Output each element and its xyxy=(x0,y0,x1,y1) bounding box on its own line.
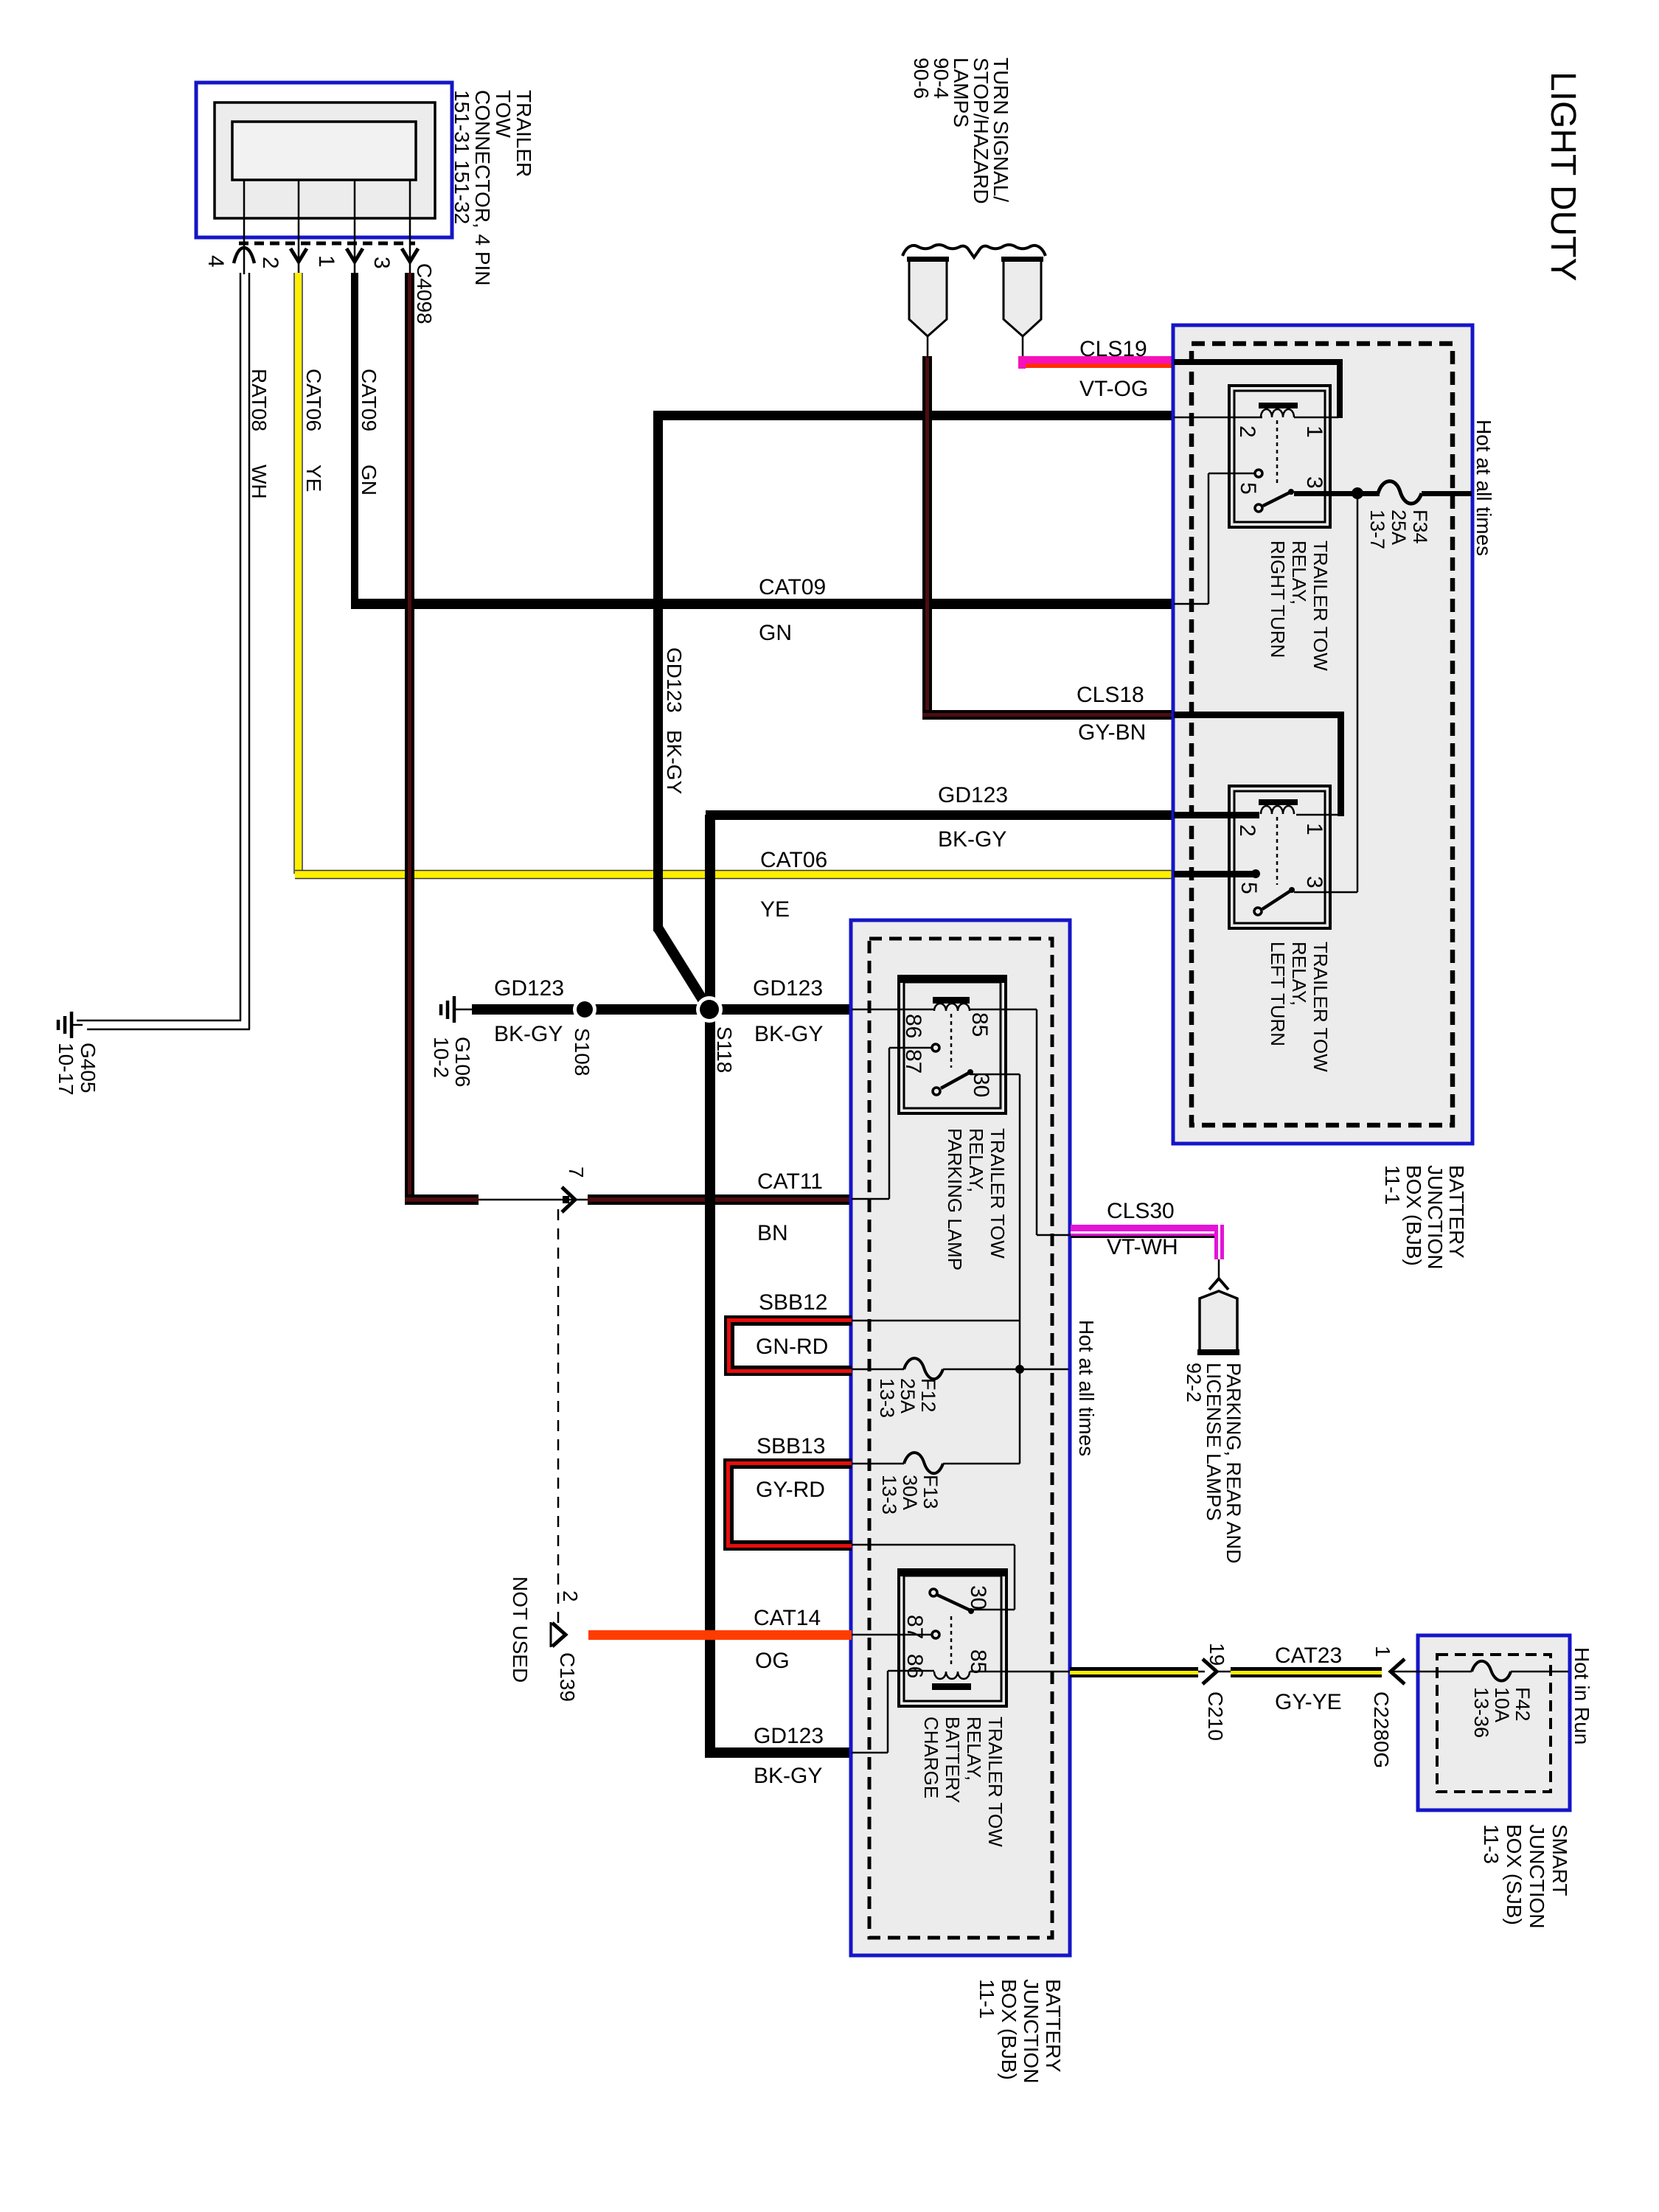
connector pin stub 4 xyxy=(243,180,246,274)
svg-text:TRAILER TOW: TRAILER TOW xyxy=(1310,540,1332,671)
svg-text:TRAILER TOW: TRAILER TOW xyxy=(987,1128,1009,1259)
svg-text:90-6: 90-6 xyxy=(910,58,933,99)
label RAT08 WH xyxy=(248,369,271,499)
svg-text:11-1: 11-1 xyxy=(1381,1165,1404,1205)
svg-text:F12: F12 xyxy=(917,1378,939,1413)
label turn signal lamps xyxy=(910,58,1012,204)
wire CAT06 YE yellow horizontal xyxy=(295,871,1174,878)
svg-text:S118: S118 xyxy=(713,1026,736,1073)
svg-text:19: 19 xyxy=(1206,1643,1228,1666)
svg-text:C139: C139 xyxy=(556,1652,579,1702)
label 2 C139 xyxy=(556,1590,582,1702)
svg-text:85: 85 xyxy=(966,1649,990,1674)
svg-text:SMART: SMART xyxy=(1548,1824,1571,1896)
label trailer tow relay parking lamp xyxy=(944,1128,1009,1270)
svg-text:CLS30: CLS30 xyxy=(1107,1199,1175,1223)
wire CAT06 YE yellow vertical xyxy=(295,273,302,877)
wire CAT06 inside to pin 5 xyxy=(1174,871,1253,877)
svg-text:LEFT TURN: LEFT TURN xyxy=(1267,942,1289,1046)
svg-text:151-31 151-32: 151-31 151-32 xyxy=(451,90,473,224)
svg-text:RELAY,: RELAY, xyxy=(965,1128,987,1192)
label parking rear and license lamps 92-2 xyxy=(1183,1363,1245,1564)
lamp turn signal left xyxy=(907,257,949,358)
wire CLS30 VT-WH magenta xyxy=(1071,1225,1224,1259)
connector parking rear license lamps xyxy=(1197,1259,1239,1355)
wire GD123 BK-GY left turn relay ground horizontal xyxy=(706,810,1174,820)
label CAT09 GN rotated xyxy=(358,369,380,495)
svg-text:GN-RD: GN-RD xyxy=(756,1335,828,1359)
label trailer tow relay left turn xyxy=(1267,942,1332,1072)
pin labels left turn relay xyxy=(1235,823,1326,894)
svg-text:87: 87 xyxy=(902,1615,927,1639)
relay K2 trailer tow relay left turn xyxy=(1229,786,1330,928)
svg-text:BOX (BJB): BOX (BJB) xyxy=(1402,1165,1425,1266)
svg-text:F42: F42 xyxy=(1512,1687,1534,1722)
svg-text:3: 3 xyxy=(369,257,394,269)
wire CAT09 GN black vertical xyxy=(351,273,358,609)
label F13 30A 13-3 xyxy=(878,1475,942,1514)
svg-text:86: 86 xyxy=(901,1014,925,1038)
wire CAT14 thin inside to pin 87 xyxy=(852,1634,932,1636)
wire CAT23 GY-YE segment 2 xyxy=(1217,1667,1382,1677)
svg-text:7: 7 xyxy=(565,1166,588,1178)
svg-text:13-36: 13-36 xyxy=(1470,1687,1492,1738)
svg-text:2: 2 xyxy=(1235,824,1259,837)
svg-text:3: 3 xyxy=(1302,476,1326,489)
svg-text:LICENSE LAMPS: LICENSE LAMPS xyxy=(1203,1363,1225,1521)
svg-text:4: 4 xyxy=(204,255,228,268)
label CAT11 BN xyxy=(757,1169,823,1245)
wire CLS19 VT-OG magenta xyxy=(1018,356,1174,369)
dashed line to C139 xyxy=(557,1209,560,1626)
label CLS18 GY-BN xyxy=(1077,683,1146,745)
svg-text:GD123: GD123 xyxy=(753,976,823,1001)
svg-text:5: 5 xyxy=(1236,482,1260,495)
ground G106 xyxy=(441,996,475,1023)
wire CAT09 inside to pin 5 xyxy=(1174,473,1255,604)
svg-text:BOX (SJB): BOX (SJB) xyxy=(1503,1824,1526,1925)
svg-text:CAT14: CAT14 xyxy=(754,1606,821,1630)
SJB smart junction box xyxy=(1418,1635,1570,1810)
svg-text:25A: 25A xyxy=(897,1378,919,1413)
svg-text:BN: BN xyxy=(757,1221,788,1245)
wire CAT11 BN horizontal right segment xyxy=(588,1194,852,1205)
svg-text:JUNCTION: JUNCTION xyxy=(1020,1979,1043,2084)
svg-text:30A: 30A xyxy=(899,1475,921,1510)
label CAT14 OG xyxy=(754,1606,821,1673)
connector C139 arrow xyxy=(551,1622,566,1647)
svg-text:BK-GY: BK-GY xyxy=(663,730,686,794)
wire GD123 BK-GY bottom run to battery charge relay xyxy=(705,1009,715,1758)
svg-text:CAT23: CAT23 xyxy=(1275,1644,1342,1668)
splice S118 xyxy=(696,996,723,1023)
svg-text:1: 1 xyxy=(1302,823,1326,835)
pin 1 arrow xyxy=(347,248,363,262)
wire into SJB xyxy=(1392,1671,1472,1673)
BJB box right (battery junction box) xyxy=(1173,325,1472,1144)
wire RAT08 WH white wire horizontal to ground xyxy=(72,1020,250,1029)
pin 3 arrow xyxy=(402,248,418,262)
svg-text:1: 1 xyxy=(1302,425,1326,438)
svg-text:GN: GN xyxy=(358,465,380,495)
svg-text:3: 3 xyxy=(1302,876,1326,888)
svg-text:1: 1 xyxy=(1371,1646,1394,1658)
pin labels right turn relay xyxy=(1235,425,1326,495)
label CAT06 YE rotated xyxy=(302,369,325,492)
svg-text:CAT09: CAT09 xyxy=(759,575,826,599)
wire CLS19 inside box to relay coil xyxy=(1174,359,1343,418)
svg-text:BK-GY: BK-GY xyxy=(938,827,1006,852)
connector pin stub 1 xyxy=(354,180,356,274)
label BATTERY JUNCTION BOX (BJB) 11-1 right xyxy=(1381,1165,1468,1270)
label 1 C2280G xyxy=(1370,1646,1394,1768)
label F12 25A 13-3 xyxy=(876,1378,939,1418)
label GD123 BK-GY bottom xyxy=(754,1724,824,1788)
label F42 10A 13-36 xyxy=(1470,1687,1534,1738)
wire CAT14 OG orange xyxy=(588,1630,852,1640)
wire parking pin30 riser xyxy=(970,1074,1020,1464)
svg-text:YE: YE xyxy=(302,465,325,492)
svg-text:CAT11: CAT11 xyxy=(757,1169,823,1194)
pin 2 arrow xyxy=(291,248,307,262)
label GD123 BK-GY rotated on vertical xyxy=(663,647,686,794)
wire F12 line xyxy=(852,1365,1068,1374)
svg-text:30: 30 xyxy=(969,1073,993,1097)
svg-text:C210: C210 xyxy=(1204,1691,1227,1741)
svg-text:WH: WH xyxy=(248,465,271,499)
wire GD123 thin inside to battery relay coil 86 xyxy=(852,1671,934,1753)
svg-text:OG: OG xyxy=(755,1649,790,1673)
svg-text:30: 30 xyxy=(966,1585,990,1610)
svg-text:GD123: GD123 xyxy=(494,976,564,1001)
svg-text:92-2: 92-2 xyxy=(1183,1363,1205,1402)
wire GD123 thick inside to left relay coil xyxy=(1174,812,1259,818)
svg-text:87: 87 xyxy=(901,1049,925,1074)
wire riser from F34 junction to left relay pin3 xyxy=(1357,496,1359,892)
svg-text:GD123: GD123 xyxy=(663,647,686,713)
svg-text:LIGHT DUTY: LIGHT DUTY xyxy=(1543,72,1582,281)
wire SBB12 inside to pin30 riser xyxy=(852,1320,1020,1322)
svg-text:GD123: GD123 xyxy=(938,783,1008,807)
svg-text:BATTERY: BATTERY xyxy=(1445,1165,1468,1259)
svg-text:13-7: 13-7 xyxy=(1366,509,1388,549)
svg-text:BOX (BJB): BOX (BJB) xyxy=(998,1979,1020,2080)
wire F13 line xyxy=(852,1463,1020,1465)
svg-text:Hot at all times: Hot at all times xyxy=(1075,1320,1098,1456)
svg-text:CLS19: CLS19 xyxy=(1079,337,1147,361)
svg-text:BATTERY: BATTERY xyxy=(1042,1979,1065,2073)
label GD123 BK-GY left of S108 xyxy=(494,976,564,1046)
svg-text:NOT USED: NOT USED xyxy=(509,1576,532,1683)
label SBB12 GN-RD xyxy=(756,1290,828,1359)
label CLS30 VT-WH xyxy=(1107,1199,1178,1259)
wire CAT09 GN black horizontal xyxy=(351,599,1174,609)
svg-text:CAT06: CAT06 xyxy=(760,848,827,872)
svg-text:BK-GY: BK-GY xyxy=(494,1022,563,1046)
wire CLS18 GY-BN horizontal xyxy=(922,710,1174,720)
wire CAT23 GY-YE segment 1 xyxy=(1070,1667,1198,1677)
label G106 10-2 xyxy=(430,1037,474,1088)
svg-text:85: 85 xyxy=(967,1012,992,1037)
wire GD123 thin inside to parking relay coil xyxy=(852,1009,934,1011)
svg-text:2: 2 xyxy=(1235,425,1259,438)
svg-text:CAT09: CAT09 xyxy=(358,369,380,431)
svg-text:25A: 25A xyxy=(1388,509,1410,545)
wire GD123 thin inside to right relay coil xyxy=(1174,417,1262,419)
svg-text:RIGHT TURN: RIGHT TURN xyxy=(1267,540,1289,658)
wire CLS18 GY-BN from lamp1 vertical xyxy=(922,356,932,720)
svg-text:TRAILER TOW: TRAILER TOW xyxy=(984,1717,1006,1847)
label CAT09 GN horizontal xyxy=(759,575,826,645)
svg-text:10-2: 10-2 xyxy=(430,1037,453,1078)
svg-text:BATTERY: BATTERY xyxy=(942,1717,964,1804)
svg-text:2: 2 xyxy=(559,1590,582,1602)
pin 4 arrow xyxy=(234,248,254,263)
wire battery relay coil 85 to CAT23 xyxy=(970,1671,1070,1673)
label trailer tow relay right turn xyxy=(1267,540,1332,671)
wire RAT08 WH white wire vertical xyxy=(240,273,249,1029)
svg-text:RELAY,: RELAY, xyxy=(1288,942,1310,1006)
label 19 C210 xyxy=(1204,1643,1228,1741)
svg-text:C2280G: C2280G xyxy=(1370,1691,1393,1768)
wire CLS18 inside box to left relay coil xyxy=(1174,712,1344,816)
svg-text:CLS18: CLS18 xyxy=(1077,683,1144,707)
wire CAT11 thin inside to parking relay pin 87 xyxy=(852,1048,932,1199)
svg-text:10-17: 10-17 xyxy=(55,1043,77,1096)
svg-text:G106: G106 xyxy=(451,1037,474,1088)
label BATTERY JUNCTION BOX (BJB) 11-1 bottom xyxy=(975,1979,1065,2084)
svg-text:PARKING, REAR AND: PARKING, REAR AND xyxy=(1222,1363,1245,1564)
svg-text:13-3: 13-3 xyxy=(876,1378,898,1418)
svg-text:10A: 10A xyxy=(1491,1687,1513,1722)
ground G405 xyxy=(58,1012,72,1038)
label F34 25A 13-7 xyxy=(1366,509,1431,549)
wire GD123 diagonal into S118 xyxy=(658,928,706,1006)
svg-text:CONNECTOR, 4 PIN: CONNECTOR, 4 PIN xyxy=(471,90,494,286)
splice S108 xyxy=(573,998,597,1021)
svg-text:GD123: GD123 xyxy=(754,1724,824,1748)
wire SBB13 lower leg to battery relay pin30 xyxy=(852,1545,1015,1610)
relay K4 trailer tow relay battery charge xyxy=(899,1570,1006,1706)
connector C2280G arrow xyxy=(1391,1659,1405,1684)
svg-text:VT-WH: VT-WH xyxy=(1107,1235,1178,1259)
label SMART JUNCTION BOX (SJB) 11-3 xyxy=(1480,1824,1571,1929)
fuse F42 10A xyxy=(1472,1661,1511,1681)
pin labels battery charge relay xyxy=(902,1585,990,1678)
wire SBB12 GN-RD loop xyxy=(724,1315,852,1376)
pin labels parking relay xyxy=(901,1012,993,1097)
svg-text:TOW: TOW xyxy=(492,90,515,138)
label GD123 BK-GY xyxy=(938,783,1008,852)
connector pin stub 3 xyxy=(409,180,411,274)
fuse F34 25A xyxy=(1378,481,1422,504)
label CAT23 GY-YE xyxy=(1275,1644,1342,1714)
svg-text:5: 5 xyxy=(1237,882,1261,894)
svg-text:TRAILER TOW: TRAILER TOW xyxy=(1310,942,1332,1072)
connector dashed line xyxy=(239,242,415,246)
svg-text:JUNCTION: JUNCTION xyxy=(1424,1165,1447,1270)
svg-text:13-3: 13-3 xyxy=(878,1475,900,1514)
svg-text:RELAY,: RELAY, xyxy=(963,1717,985,1781)
svg-text:F34: F34 xyxy=(1409,509,1431,544)
connector C4098 trailer tow connector box xyxy=(196,83,452,237)
svg-text:GY-BN: GY-BN xyxy=(1078,720,1146,745)
label G405 10-17 xyxy=(55,1043,100,1096)
svg-text:GY-YE: GY-YE xyxy=(1275,1690,1342,1714)
svg-text:11-1: 11-1 xyxy=(975,1979,998,2019)
svg-text:CAT06: CAT06 xyxy=(302,369,325,431)
wire CAT11 BN brown vertical xyxy=(405,273,414,1205)
svg-text:2: 2 xyxy=(258,257,282,269)
svg-text:PARKING LAMP: PARKING LAMP xyxy=(944,1128,966,1270)
svg-text:SBB12: SBB12 xyxy=(759,1290,827,1315)
wire CAT11 BN horizontal left segment xyxy=(405,1194,479,1205)
wire SBB13 GY-RD loop xyxy=(723,1458,852,1551)
svg-text:F13: F13 xyxy=(919,1475,942,1509)
wire GD123 BK-GY ground run with S108 xyxy=(472,1004,852,1015)
BJB box bottom (battery junction box 2) xyxy=(851,920,1070,1955)
in-line connector 7 on CAT11 xyxy=(479,1187,588,1212)
svg-text:RAT08: RAT08 xyxy=(248,369,271,431)
svg-text:YE: YE xyxy=(760,897,790,922)
label connector title xyxy=(451,90,535,286)
svg-text:RELAY,: RELAY, xyxy=(1288,540,1310,605)
svg-text:SBB13: SBB13 xyxy=(757,1434,825,1458)
relay K1 trailer tow relay right turn xyxy=(1229,386,1330,527)
connector pin stub 2 xyxy=(298,180,300,274)
svg-text:1: 1 xyxy=(314,255,338,268)
lamp turn signal right xyxy=(1001,257,1043,358)
svg-text:GY-RD: GY-RD xyxy=(756,1478,825,1502)
wire pin3 to fuse F34 xyxy=(1294,487,1472,499)
wire GD123 BK-GY top run (right turn relay ground) xyxy=(653,411,1174,420)
lamp brace decoration xyxy=(902,245,1046,257)
label SBB13 GY-RD xyxy=(756,1434,825,1502)
svg-text:11-3: 11-3 xyxy=(1480,1824,1503,1864)
svg-text:GN: GN xyxy=(759,621,792,645)
svg-text:C4098: C4098 xyxy=(413,263,436,324)
label trailer tow relay battery charge xyxy=(920,1717,1006,1847)
svg-text:VT-OG: VT-OG xyxy=(1079,377,1148,401)
svg-text:Hot in Run: Hot in Run xyxy=(1571,1647,1593,1745)
svg-text:G405: G405 xyxy=(77,1043,100,1093)
svg-text:TRAILER: TRAILER xyxy=(512,90,535,177)
relay K3 trailer tow relay parking lamp xyxy=(899,976,1006,1113)
wire parking coil 85 to CLS30 riser xyxy=(970,1009,1071,1235)
connector C210 arrow xyxy=(1198,1659,1217,1684)
svg-text:CHARGE: CHARGE xyxy=(920,1717,942,1798)
svg-text:Hot at all times: Hot at all times xyxy=(1472,420,1495,556)
svg-text:86: 86 xyxy=(902,1654,927,1678)
wire left relay pin3 to riser xyxy=(1294,891,1357,894)
fuse F12 25A xyxy=(904,1358,943,1379)
fuse F13 30A xyxy=(904,1453,943,1473)
svg-text:BK-GY: BK-GY xyxy=(754,1022,823,1046)
label GD123 BK-GY between S108 S118 xyxy=(753,976,823,1046)
svg-text:BK-GY: BK-GY xyxy=(754,1764,822,1788)
label CAT06 YE horizontal xyxy=(760,848,827,922)
svg-text:S108: S108 xyxy=(571,1028,594,1076)
label CLS19 VT-OG xyxy=(1079,337,1148,401)
svg-text:JUNCTION: JUNCTION xyxy=(1526,1824,1548,1929)
